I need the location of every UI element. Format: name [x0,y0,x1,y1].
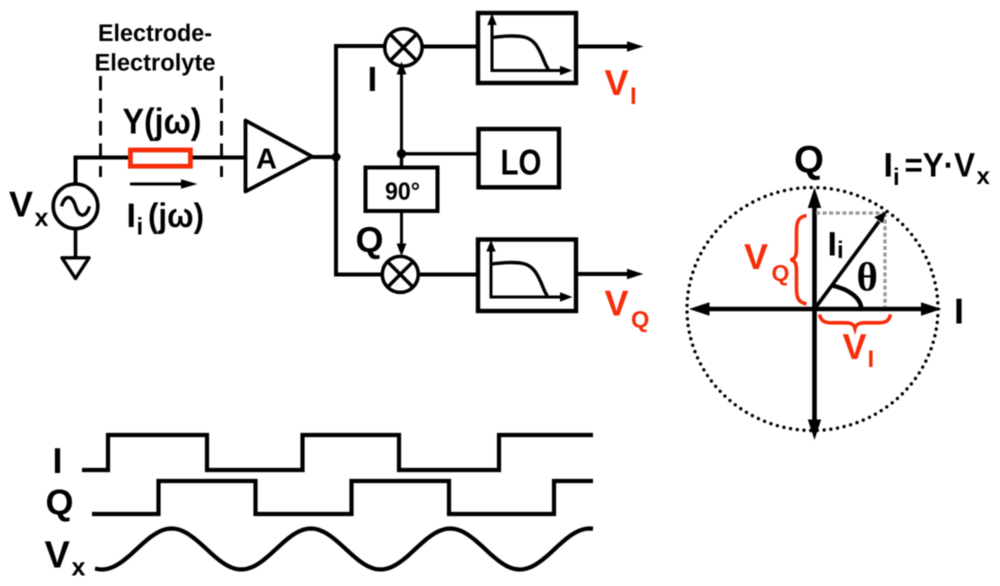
wire mixer top to filter [422,45,477,49]
svg-text:x: x [35,204,49,232]
svg-text:I: I [828,226,837,264]
resistor Y (electrode impedance) [130,150,190,166]
label Ii(jw) [127,197,205,241]
wire source-bottom to ground [74,229,78,259]
svg-text:I: I [53,440,63,481]
axis Q vertical [808,188,821,441]
svg-text:LO: LO [501,142,542,183]
svg-text:Y(jω): Y(jω) [123,101,202,142]
brace VI red [820,315,891,329]
svg-text:V: V [605,62,629,103]
wire source-top to horizontal [74,156,78,185]
gray dashed projection vertical [883,213,886,307]
arrow LO to top mixer [397,62,407,154]
svg-text:Q: Q [356,219,384,260]
label VI red [605,62,637,110]
label VQ red diagram [744,236,789,286]
wire trunk vertical [334,44,338,277]
wire filter bottom out arrow VQ [578,269,644,279]
voltage source VX [53,184,98,229]
svg-text:I: I [630,83,637,110]
wire junction to 90 box [400,154,403,166]
svg-text:x: x [977,163,991,190]
svg-text:V: V [45,535,71,577]
svg-text:V: V [605,283,629,324]
wire top branch [336,44,386,48]
svg-text:x: x [72,554,86,582]
label VQ red [605,283,650,333]
svg-text:90°: 90° [385,179,420,206]
svg-text:Q: Q [631,307,649,333]
svg-text:θ: θ [857,254,878,300]
filter box bottom (LPF) [478,240,576,312]
svg-text:Electrode-: Electrode- [98,20,212,47]
svg-text:Q: Q [772,260,790,286]
svg-text:i: i [837,237,844,264]
label Electrode-Electrolyte [95,20,216,77]
filter box top (LPF) [478,13,576,83]
phase shifter 90 [366,168,438,212]
label Vx waveform [45,535,86,582]
dashed boundary left [99,76,102,177]
svg-text:Electrolyte: Electrolyte [95,50,216,77]
svg-text:i: i [893,164,900,191]
wire filter top out arrow VI [578,41,644,51]
svg-text:V: V [744,236,768,277]
svg-text:I: I [868,346,875,373]
gray dashed projection horizontal [816,211,886,214]
ground [62,258,89,279]
svg-text:=Y·V: =Y·V [905,147,976,185]
label Ii on vector [828,226,844,265]
brace VQ red [791,216,807,304]
wire LO to junction [402,152,477,155]
waveform Q square [92,481,593,514]
vector Ii [815,211,887,309]
label VI red diagram [843,326,875,373]
axis I horizontal [689,302,942,315]
mixer top [385,29,422,66]
arrow 90 to bottom mixer [397,213,407,256]
mixer bottom [382,256,418,292]
formula Ii = Y.Vx [884,147,991,192]
svg-text:A: A [256,143,277,175]
svg-text:(jω): (jω) [148,197,204,235]
svg-text:i: i [137,214,144,241]
wire horizontal main to amp [74,156,246,160]
node junction amp out [332,153,341,162]
node Vx label [9,184,49,233]
wire bottom branch [336,273,383,277]
current arrow Ii [130,179,198,188]
svg-text:Q: Q [794,139,824,182]
angle arc theta [832,286,861,310]
wire mixer bottom to filter [418,273,477,277]
dotted circle (unit circle) [687,188,938,431]
svg-text:I: I [127,197,136,235]
waveform Vx sine [95,529,593,570]
svg-text:I: I [954,291,964,332]
svg-text:V: V [843,326,867,367]
waveform I square [82,435,593,470]
node junction LO [397,149,406,158]
svg-text:I: I [368,60,378,99]
op-amp A [246,121,313,192]
svg-text:V: V [9,184,33,225]
oscillator LO [479,129,560,187]
svg-text:I: I [884,147,893,185]
svg-text:Q: Q [46,482,74,523]
dashed boundary right [220,76,223,177]
wire amp out to trunk [312,155,336,159]
